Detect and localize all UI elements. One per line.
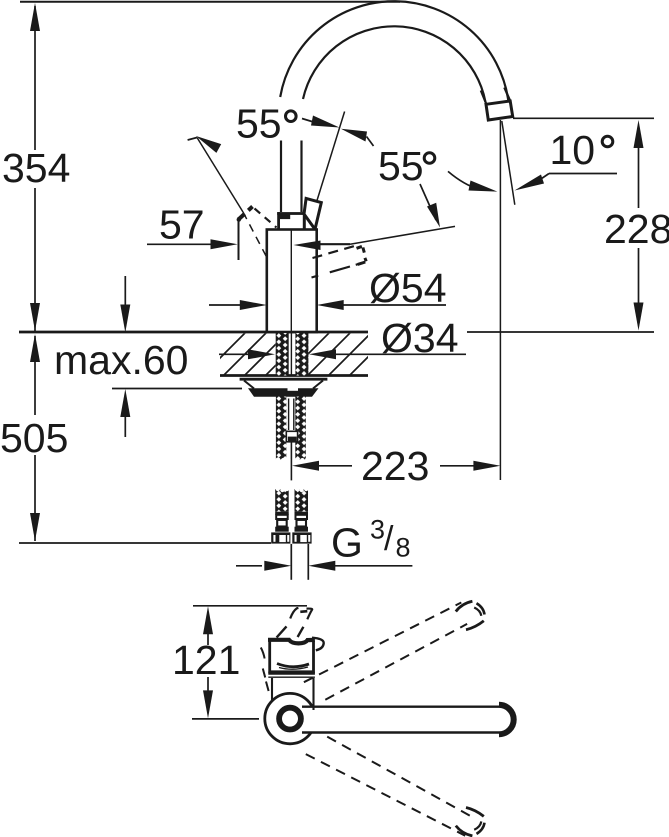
svg-text:505: 505 (0, 415, 68, 461)
svg-text:3: 3 (370, 515, 385, 545)
svg-text:55: 55 (236, 101, 282, 147)
svg-text:223: 223 (361, 443, 429, 489)
svg-text:G: G (331, 520, 363, 566)
dim Ø54 arrows at body (209, 304, 240, 306)
svg-text:57: 57 (159, 202, 205, 248)
counter bottom line (220, 374, 368, 377)
threaded shank below nut (276, 397, 286, 460)
collar top edge with notch (268, 640, 315, 644)
dimension line 354/505 vertical (34, 6, 36, 150)
arrow 354 bottom (30, 303, 40, 331)
55deg right arc arrow (448, 171, 480, 189)
223 dimension (292, 461, 319, 471)
228 dimension line (638, 146, 640, 208)
dashed swivel spout (312, 246, 367, 278)
threaded shank in counter (276, 333, 289, 376)
svg-text:max.60: max.60 (54, 337, 188, 383)
10 degree tilted line (502, 121, 515, 205)
121 top reference line (193, 605, 307, 607)
collar right flange (312, 638, 324, 651)
lower dashed arm (306, 737, 485, 836)
flexible hoses (275, 489, 308, 532)
55deg right leader arrow to swivel line (420, 184, 436, 220)
505 bottom reference line (19, 542, 271, 544)
counter hatching (200, 330, 395, 378)
counter top line (19, 331, 368, 334)
arrow 228 top (634, 120, 644, 148)
G3/8 dimension arrows (236, 565, 262, 567)
escutcheon circle (265, 693, 315, 743)
svg-text:121: 121 (172, 637, 240, 683)
228 top reference line (513, 117, 654, 119)
lever handle (304, 198, 321, 229)
57 tick line (238, 217, 240, 260)
arrow 505 bottom (30, 513, 40, 541)
upper dashed arm (304, 601, 485, 699)
arrow 228 bottom (634, 303, 644, 331)
body (267, 230, 317, 333)
svg-text:354: 354 (2, 145, 70, 191)
10 degree leader (549, 173, 617, 175)
svg-text:Ø34: Ø34 (381, 315, 459, 361)
top view handle shaft (277, 626, 287, 637)
G3/8 tube (290, 544, 292, 580)
svg-text:10: 10 (550, 127, 596, 173)
max.60 lower reference line (112, 388, 242, 390)
dashed lever (left position) (237, 207, 277, 228)
10 degree arrow (515, 175, 545, 191)
hose channel inside shank (288, 399, 290, 431)
svg-text:/: / (384, 520, 394, 558)
inner smile curve (277, 664, 309, 667)
washer flange (240, 378, 328, 381)
121 bottom reference line (192, 718, 259, 720)
hose coupling (286, 431, 297, 442)
handle tip marks (290, 608, 298, 619)
riser tube (280, 141, 282, 214)
svg-text:55: 55 (378, 143, 424, 189)
aerator (486, 101, 513, 120)
top reference line (20, 1, 400, 3)
55deg left line A with arrow (188, 138, 197, 141)
aerator tube stubs (481, 91, 487, 105)
arrow 505 top (30, 334, 40, 362)
crossing arrows at handle line B (311, 116, 340, 128)
spout arc inner (303, 26, 485, 101)
hose connectors (271, 532, 311, 543)
handle line B (317, 112, 345, 201)
spout tube inner ring (279, 708, 301, 730)
swivel spout slanted line with arrow (320, 243, 350, 245)
spout vertical centerline (499, 120, 501, 480)
121 dimension line and arrows (203, 606, 213, 634)
cap collar (277, 212, 306, 229)
55deg left leader (302, 119, 314, 123)
mounting nut (248, 388, 319, 397)
57 leader and arrow (147, 243, 212, 245)
spout arc outer (280, 1, 508, 100)
spout arm (302, 707, 512, 733)
body lower box (271, 678, 273, 702)
left dashes near body (261, 648, 269, 692)
centerline below coupling (290, 442, 292, 481)
svg-text:Ø54: Ø54 (369, 265, 447, 311)
thread end scallops (276, 457, 310, 492)
body inner line (290, 230, 292, 331)
svg-text:228: 228 (604, 206, 669, 252)
svg-text:8: 8 (396, 533, 411, 563)
dim Ø34 (219, 353, 248, 355)
arrow 354 top (30, 3, 40, 31)
max.60 lower arrow (120, 389, 130, 417)
top view body upper box (268, 638, 324, 710)
max.60 upper arrow (124, 276, 126, 305)
